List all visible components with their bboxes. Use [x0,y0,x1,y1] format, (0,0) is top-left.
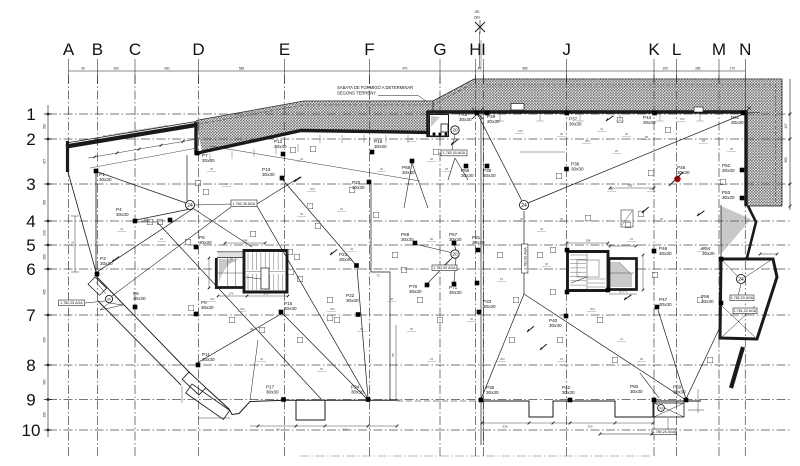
svg-text:10: 10 [22,421,41,440]
svg-text:22m: 22m [474,16,481,20]
svg-text:30x30: 30x30 [562,390,575,395]
svg-text:8: 8 [26,356,35,375]
svg-text:30x30: 30x30 [630,389,643,394]
svg-text:20: 20 [452,128,458,133]
svg-text:330: 330 [502,425,507,429]
svg-text:350: 350 [43,200,47,206]
svg-text:30x30: 30x30 [346,298,359,303]
svg-text:1.781,20 AGA: 1.781,20 AGA [734,309,757,313]
svg-text:585: 585 [239,66,245,70]
svg-text:30x30: 30x30 [702,251,715,256]
svg-text:44: 44 [300,157,304,161]
svg-text:24: 24 [521,203,527,209]
svg-text:I: I [481,40,486,59]
svg-text:300: 300 [585,139,590,143]
svg-text:73: 73 [376,274,380,278]
svg-text:15: 15 [630,237,634,241]
svg-text:15: 15 [650,187,654,191]
svg-text:44: 44 [600,127,604,131]
svg-text:30x30: 30x30 [571,167,584,172]
svg-text:30: 30 [560,217,564,221]
svg-text:330: 330 [43,412,47,418]
svg-text:D: D [192,40,204,59]
svg-text:25: 25 [210,167,214,171]
svg-text:580: 580 [522,66,528,70]
svg-text:30: 30 [300,212,304,216]
svg-text:1: 1 [26,105,35,124]
svg-text:30x30: 30x30 [100,261,113,266]
svg-text:30x30: 30x30 [483,173,496,178]
svg-text:90: 90 [230,257,234,261]
svg-text:298: 298 [586,239,591,243]
svg-text:30: 30 [260,357,264,361]
svg-text:170: 170 [729,66,735,70]
svg-text:25: 25 [445,167,449,171]
svg-text:24: 24 [187,203,193,209]
svg-text:30x30: 30x30 [461,173,474,178]
svg-text:300: 300 [700,247,705,251]
svg-text:90: 90 [410,327,414,331]
svg-text:300: 300 [310,187,315,191]
svg-text:30x30: 30x30 [449,290,462,295]
svg-text:170: 170 [229,292,234,296]
svg-text:30x30: 30x30 [486,390,499,395]
svg-text:44: 44 [120,227,124,231]
svg-text:44: 44 [350,247,354,251]
svg-text:25: 25 [520,217,524,221]
svg-text:240: 240 [43,230,47,236]
svg-text:SABATA DE FORMIGÓ A DETERMINAR: SABATA DE FORMIGÓ A DETERMINAR [337,85,413,90]
svg-text:30x30: 30x30 [133,296,146,301]
svg-text:30x30: 30x30 [643,120,656,125]
svg-text:150: 150 [663,66,669,70]
svg-text:25: 25 [730,147,734,151]
svg-text:152: 152 [210,297,215,301]
svg-text:390: 390 [43,379,47,385]
svg-text:30x30: 30x30 [402,170,415,175]
svg-text:2: 2 [26,130,35,149]
svg-text:A: A [63,40,75,59]
svg-text:152: 152 [680,117,685,121]
svg-text:300: 300 [590,307,595,311]
svg-text:90: 90 [430,237,434,241]
svg-text:24: 24 [738,277,744,283]
svg-text:9: 9 [26,391,35,410]
svg-text:3: 3 [26,175,35,194]
svg-text:15: 15 [340,207,344,211]
svg-text:E: E [279,40,290,59]
svg-text:58: 58 [702,139,706,143]
svg-text:30x30: 30x30 [262,172,275,177]
svg-text:30x30: 30x30 [284,306,297,311]
svg-text:90: 90 [320,367,324,371]
svg-text:1.782,00 AGA: 1.782,00 AGA [523,247,527,270]
svg-text:90: 90 [545,262,549,266]
svg-text:560: 560 [784,157,788,163]
svg-text:30x30: 30x30 [201,305,214,310]
svg-text:320: 320 [587,425,592,429]
svg-text:5: 5 [26,236,35,255]
svg-text:470: 470 [402,66,408,70]
svg-text:15: 15 [160,237,164,241]
svg-text:35 170: 35 170 [619,290,628,294]
svg-text:310: 310 [71,241,75,246]
svg-text:30x30: 30x30 [199,240,212,245]
svg-text:F: F [364,40,374,59]
svg-text:15: 15 [560,357,564,361]
svg-text:J: J [562,40,571,59]
svg-text:30x30: 30x30 [549,323,562,328]
svg-text:90: 90 [410,137,414,141]
svg-text:44: 44 [225,182,229,186]
svg-text:30x30: 30x30 [202,158,215,163]
svg-text:30x30: 30x30 [472,240,485,245]
svg-text:280: 280 [43,254,47,260]
svg-text:300: 300 [330,307,335,311]
svg-text:30x30: 30x30 [722,195,735,200]
svg-text:320: 320 [342,428,347,432]
svg-text:465: 465 [43,289,47,295]
svg-text:15: 15 [430,357,434,361]
svg-text:30: 30 [540,227,544,231]
svg-text:7: 7 [26,306,35,325]
svg-text:417: 417 [784,123,788,129]
svg-text:B: B [92,40,103,59]
svg-text:30x30: 30x30 [459,117,472,122]
svg-text:C: C [129,40,141,59]
svg-text:30x30: 30x30 [673,390,686,395]
svg-text:15: 15 [500,277,504,281]
svg-text:296: 296 [628,184,633,188]
svg-text:30x30: 30x30 [722,168,735,173]
svg-text:30: 30 [430,157,434,161]
svg-text:K: K [648,40,660,59]
svg-text:30x30: 30x30 [659,251,672,256]
svg-text:90: 90 [640,357,644,361]
svg-text:30: 30 [625,132,629,136]
svg-text:30x30: 30x30 [352,185,365,190]
svg-text:30x30: 30x30 [677,170,690,175]
svg-text:30x30: 30x30 [401,237,414,242]
svg-text:M: M [712,40,726,59]
svg-text:6: 6 [26,260,35,279]
svg-text:30x30: 30x30 [116,212,129,217]
svg-text:1.782,00 AGA: 1.782,00 AGA [433,266,456,270]
svg-text:152: 152 [518,129,523,133]
svg-text:298: 298 [243,239,248,243]
svg-text:1.782,00 AGA: 1.782,00 AGA [443,151,466,155]
svg-text:25: 25 [615,149,619,153]
svg-text:90: 90 [276,428,280,432]
svg-text:30: 30 [380,167,384,171]
svg-text:30x30: 30x30 [449,237,462,242]
svg-text:M: M [659,405,662,410]
svg-text:1.780,25 AGA: 1.780,25 AGA [653,430,676,434]
svg-text:30: 30 [360,327,364,331]
svg-text:JD: JD [475,9,480,14]
svg-text:30x30: 30x30 [483,304,496,309]
svg-text:88: 88 [391,353,395,357]
svg-text:30x30: 30x30 [569,122,582,127]
svg-text:30x30: 30x30 [99,177,112,182]
svg-text:30x30: 30x30 [659,302,672,307]
svg-text:30x30: 30x30 [374,144,387,149]
svg-text:30x30: 30x30 [339,257,352,262]
svg-text:1.782,20 AGA: 1.782,20 AGA [731,296,754,300]
svg-text:58: 58 [645,135,649,139]
svg-text:20: 20 [452,252,458,257]
svg-text:90: 90 [81,66,85,70]
svg-text:58: 58 [390,297,394,301]
svg-text:1.782,35 AGA: 1.782,35 AGA [233,202,256,206]
svg-text:90: 90 [560,132,564,136]
svg-text:30: 30 [610,187,614,191]
svg-text:M: M [107,296,110,301]
svg-text:30x30: 30x30 [351,390,364,395]
svg-text:310: 310 [43,124,47,130]
svg-text:44: 44 [250,327,254,331]
svg-text:SEGONS TERRENY: SEGONS TERRENY [337,91,376,96]
svg-text:4: 4 [26,212,35,231]
svg-text:285: 285 [695,66,701,70]
svg-text:N: N [739,40,751,59]
svg-text:30x30: 30x30 [202,357,215,362]
svg-text:15: 15 [620,337,624,341]
svg-text:427: 427 [43,159,47,165]
svg-text:1.782,25 AGA: 1.782,25 AGA [60,301,83,305]
svg-text:430: 430 [43,337,47,343]
svg-text:300: 300 [114,66,120,70]
svg-text:30x30: 30x30 [731,120,744,125]
svg-text:G: G [433,40,446,59]
svg-text:30x30: 30x30 [487,119,500,124]
svg-text:30: 30 [470,317,474,321]
svg-text:30x30: 30x30 [409,289,422,294]
svg-text:430: 430 [164,66,170,70]
svg-text:30: 30 [660,217,664,221]
svg-text:200: 200 [264,292,269,296]
svg-text:300: 300 [500,357,505,361]
svg-text:L: L [672,40,681,59]
svg-text:30x30: 30x30 [266,390,279,395]
svg-text:300: 300 [240,307,245,311]
